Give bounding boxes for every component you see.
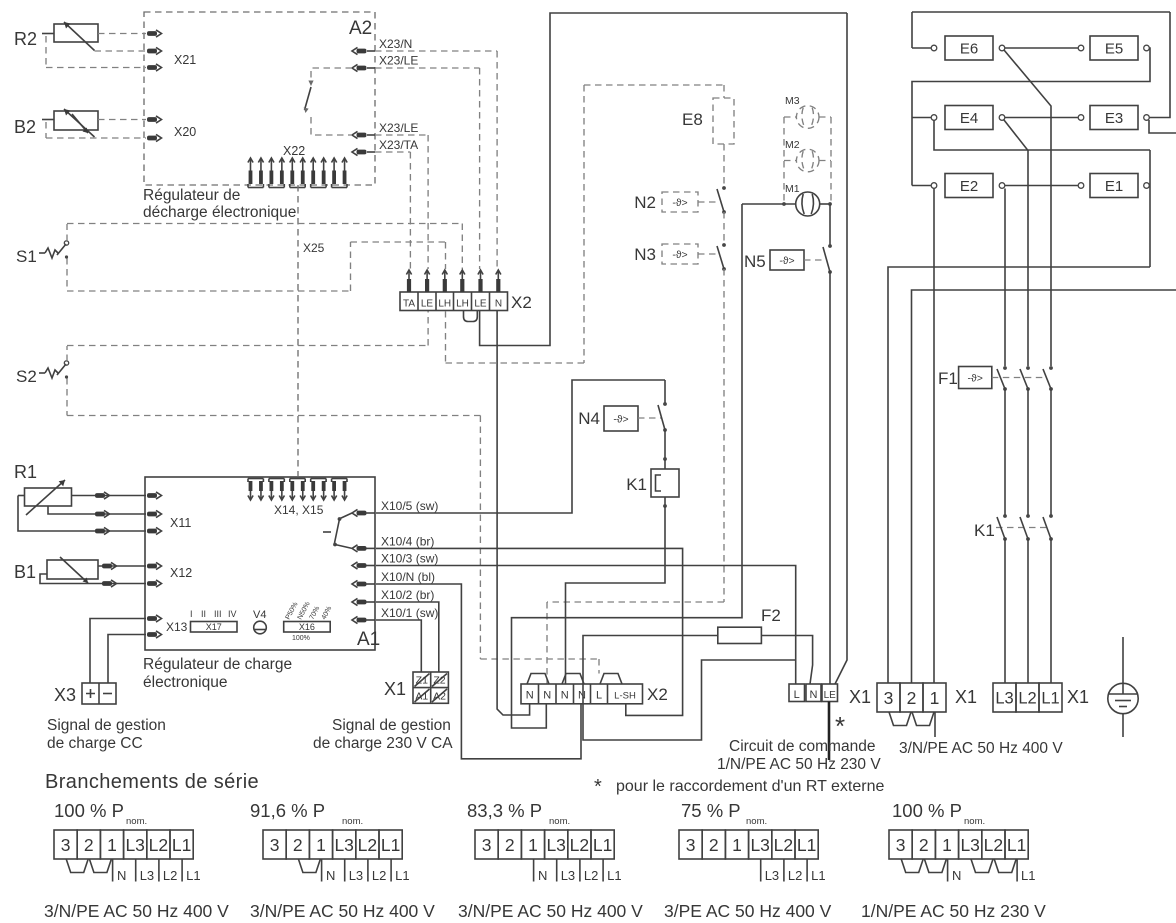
- wire E4 to E3: [1005, 117, 1078, 119]
- wire below X1 LE external RT: [828, 702, 831, 761]
- svg-text:100 % P: 100 % P: [892, 800, 962, 821]
- wire R2 pin1 to X21: [98, 33, 146, 35]
- svg-text:V4: V4: [253, 609, 266, 621]
- svg-text:N: N: [578, 690, 586, 702]
- svg-text:2: 2: [907, 688, 917, 708]
- svg-text:Z1: Z1: [416, 675, 428, 687]
- svg-text:*: *: [594, 776, 602, 798]
- svg-text:2: 2: [505, 835, 515, 855]
- wire B2 pin2 bracket to X20: [42, 119, 54, 121]
- svg-text:L2: L2: [984, 835, 1003, 855]
- svg-text:LH: LH: [438, 299, 451, 310]
- jumper loop under X2 upper LH-LE: [464, 311, 478, 322]
- contact N3: [722, 243, 726, 247]
- heater E3: [1078, 115, 1084, 121]
- relay coil K1: [664, 430, 666, 459]
- wire X2-LE to heater feed riser: [480, 13, 847, 346]
- svg-text:nom.: nom.: [126, 816, 147, 827]
- svg-text:L3: L3: [140, 868, 154, 883]
- svg-text:IV: IV: [228, 609, 237, 619]
- wire X23/LE to X2 terminal LE (dashed): [375, 67, 480, 69]
- terminal strip X2 upper TA LE LH LH LE N: [400, 292, 508, 311]
- svg-text:L1: L1: [607, 868, 621, 883]
- contact N5: [828, 244, 832, 248]
- svg-text:N: N: [810, 689, 818, 701]
- wire R1 pin1 to X11: [72, 495, 147, 497]
- svg-text:X13: X13: [166, 620, 188, 634]
- svg-text:2: 2: [709, 835, 719, 855]
- svg-text:Branchements de série: Branchements de série: [45, 771, 259, 793]
- svg-text:K1: K1: [626, 475, 647, 494]
- connector arrows X21: [147, 31, 157, 36]
- heater E5: [1078, 45, 1084, 51]
- svg-text:L1: L1: [797, 835, 816, 855]
- svg-text:L2: L2: [358, 835, 377, 855]
- svg-text:L1: L1: [1007, 835, 1026, 855]
- resistor E8 (dashed): [723, 85, 725, 98]
- svg-text:L2: L2: [1018, 689, 1036, 707]
- svg-text:R2: R2: [14, 29, 37, 49]
- arrows X10 into A1: [357, 511, 367, 516]
- svg-text:3: 3: [61, 835, 71, 855]
- contact K1 pole L1: [1049, 514, 1053, 518]
- svg-text:X22: X22: [283, 144, 305, 158]
- svg-text:R1: R1: [14, 462, 37, 482]
- svg-text:L2: L2: [570, 835, 589, 855]
- svg-text:100%: 100%: [292, 635, 310, 642]
- svg-text:nom.: nom.: [342, 816, 363, 827]
- svg-text:M2: M2: [785, 139, 800, 151]
- wire M1 right to N5 contact: [820, 203, 830, 205]
- jumper 2-1: [912, 712, 934, 726]
- regulator A1 box: [145, 477, 375, 650]
- svg-text:L3: L3: [750, 835, 769, 855]
- svg-text:3/N/PE AC 50 Hz 400 V: 3/N/PE AC 50 Hz 400 V: [44, 901, 229, 921]
- svg-text:3/PE AC 50 Hz 400 V: 3/PE AC 50 Hz 400 V: [664, 901, 832, 921]
- svg-text:III: III: [214, 609, 222, 619]
- svg-text:X23/TA: X23/TA: [379, 138, 418, 152]
- wire X10/1 to Z1: [376, 620, 421, 672]
- dashed riser right of M2/M3: [830, 117, 832, 203]
- wire X10/5 to N4 branch: [376, 380, 665, 513]
- plug lugs on X2 lower: [527, 674, 549, 685]
- svg-text:L3: L3: [765, 868, 779, 883]
- terminal strip X2 lower N N N N L L-SH: [521, 684, 643, 704]
- heater E6: [912, 47, 931, 49]
- svg-text:nom.: nom.: [549, 816, 570, 827]
- wire top feed to E6: [912, 11, 1170, 13]
- svg-text:E4: E4: [960, 110, 978, 127]
- svg-text:N: N: [952, 868, 961, 883]
- svg-text:*: *: [835, 711, 845, 741]
- wire S2 bottom to X2 lower terminal L (dashed): [67, 415, 480, 417]
- svg-text:L: L: [596, 690, 602, 702]
- wire F1 to K1 L2: [1027, 389, 1029, 516]
- svg-text:2: 2: [919, 835, 929, 855]
- svg-text:S1: S1: [16, 247, 37, 266]
- svg-text:S2: S2: [16, 367, 37, 386]
- svg-text:L2: L2: [149, 835, 168, 855]
- svg-text:3/N/PE AC 50 Hz 400 V: 3/N/PE AC 50 Hz 400 V: [458, 901, 643, 921]
- svg-text:3: 3: [884, 688, 894, 708]
- svg-text:pour le raccordement d'un RT e: pour le raccordement d'un RT externe: [616, 778, 884, 795]
- connector arrows X20: [147, 117, 157, 122]
- dashed loop down to lower X2 N2 terminal: [723, 269, 725, 602]
- wire top wrap to E3 right: [1150, 12, 1171, 118]
- svg-text:3/N/PE AC 50 Hz 400 V: 3/N/PE AC 50 Hz 400 V: [899, 740, 1063, 757]
- svg-text:N: N: [538, 868, 547, 883]
- svg-text:3/N/PE AC 50 Hz 400 V: 3/N/PE AC 50 Hz 400 V: [250, 901, 435, 921]
- wire X23/TA to X2 terminal TA (dashed): [375, 151, 410, 153]
- svg-text:Z2: Z2: [433, 675, 445, 687]
- svg-text:X21: X21: [174, 53, 196, 67]
- wire K1 to terminal L2: [1027, 539, 1029, 683]
- svg-text:91,6 % P: 91,6 % P: [250, 800, 325, 821]
- svg-text:N4: N4: [578, 409, 600, 428]
- svg-text:L3: L3: [125, 835, 144, 855]
- svg-text:1: 1: [107, 835, 117, 855]
- power selector X16: [284, 622, 331, 633]
- relay contact inside A1: [340, 513, 352, 519]
- regulator A2 dashed enclosure: [144, 12, 375, 185]
- svg-text:L2: L2: [788, 868, 802, 883]
- wire S1 bottom to X2 terminal LH3 (dashed): [67, 290, 351, 292]
- svg-text:de charge CC: de charge CC: [47, 735, 143, 752]
- svg-text:E5: E5: [1105, 41, 1123, 58]
- svg-text:1/N/PE AC 50 Hz 230 V: 1/N/PE AC 50 Hz 230 V: [717, 756, 881, 773]
- sensor R1 (room setpoint potentiometer): [25, 488, 72, 506]
- svg-text:X25: X25: [303, 241, 325, 255]
- svg-text:3: 3: [896, 835, 906, 855]
- dashed discharge control loop left edge: [583, 85, 585, 363]
- svg-text:X10/5 (sw): X10/5 (sw): [381, 499, 438, 513]
- wire E6 to E5: [1005, 47, 1078, 49]
- svg-text:L-SH: L-SH: [614, 691, 636, 702]
- svg-text:décharge électronique: décharge électronique: [143, 204, 296, 221]
- svg-text:75 % P: 75 % P: [681, 800, 741, 821]
- wire R1 pin2 to X11: [18, 495, 25, 497]
- terminal X1 L3 L2 L1: [993, 683, 1016, 712]
- svg-text:L1: L1: [381, 835, 400, 855]
- svg-text:N5: N5: [744, 252, 766, 271]
- wire X10/2 to Z2: [376, 602, 439, 672]
- svg-text:L1: L1: [1041, 689, 1059, 707]
- svg-text:Régulateur de charge: Régulateur de charge: [143, 656, 292, 673]
- svg-text:1: 1: [942, 835, 952, 855]
- wire R2 wiper to X21: [95, 50, 147, 52]
- svg-text:X23/N: X23/N: [379, 37, 412, 51]
- svg-text:-ϑ>: -ϑ>: [613, 413, 628, 425]
- svg-text:L2: L2: [163, 868, 177, 883]
- wire X2-N down to lower X2 N1: [497, 311, 529, 715]
- svg-text:N3: N3: [634, 245, 656, 264]
- sensor B1 (room temperature NTC): [47, 560, 98, 579]
- svg-text:A2: A2: [433, 691, 446, 703]
- svg-text:X10/N (bl): X10/N (bl): [381, 570, 435, 584]
- sensor B2 (discharge temperature NTC): [54, 111, 98, 130]
- thermostat N3 (dashed): [662, 244, 698, 264]
- wire R1 wiper to X11: [48, 506, 146, 514]
- svg-text:N: N: [526, 690, 534, 702]
- svg-text:L2: L2: [584, 868, 598, 883]
- svg-text:-ϑ>: -ϑ>: [672, 197, 687, 209]
- svg-text:1: 1: [930, 688, 940, 708]
- arrows into X11: [95, 493, 105, 498]
- svg-text:X10/2 (br): X10/2 (br): [381, 588, 434, 602]
- svg-text:L3: L3: [349, 868, 363, 883]
- wire S2 top to X2 terminal LE2 bottom (dashed): [67, 345, 428, 347]
- sensor R2 (remote setpoint potentiometer): [54, 24, 98, 42]
- wire F2 right to X1 N: [761, 636, 812, 685]
- wire E5 right loop to E2 branch: [912, 48, 1150, 186]
- svg-text:B2: B2: [14, 117, 36, 137]
- svg-text:X3: X3: [54, 685, 76, 705]
- svg-text:L1: L1: [1021, 868, 1035, 883]
- svg-text:F2: F2: [761, 606, 781, 625]
- svg-text:L1: L1: [593, 835, 612, 855]
- terminal X1 L N LE: [789, 684, 805, 702]
- svg-text:LE: LE: [474, 299, 487, 310]
- svg-text:Circuit de commande: Circuit de commande: [729, 738, 875, 755]
- jumper 3-2: [889, 712, 911, 726]
- wire M1 left down to lower X2 N2: [512, 204, 743, 728]
- svg-text:TA: TA: [403, 299, 415, 310]
- svg-text:X10/4 (br): X10/4 (br): [381, 534, 434, 548]
- svg-text:X23/LE: X23/LE: [379, 121, 418, 135]
- svg-text:LE: LE: [421, 299, 434, 310]
- wire K1 to terminal L1: [1050, 539, 1052, 683]
- svg-text:L3: L3: [334, 835, 353, 855]
- svg-text:X23/LE: X23/LE: [379, 54, 418, 68]
- svg-text:nom.: nom.: [746, 816, 767, 827]
- svg-text:L1: L1: [186, 868, 200, 883]
- svg-text:X12: X12: [170, 566, 192, 580]
- svg-text:X10/3 (sw): X10/3 (sw): [381, 552, 438, 566]
- contact K1 pole L2: [1026, 514, 1030, 518]
- svg-text:N: N: [495, 299, 502, 310]
- svg-text:II: II: [201, 609, 206, 619]
- contact F1 pole L3: [1003, 366, 1007, 370]
- svg-text:N: N: [543, 690, 551, 702]
- svg-text:-ϑ>: -ϑ>: [672, 249, 687, 261]
- wire B2 pin1 to X20: [98, 119, 146, 121]
- svg-text:L3: L3: [995, 689, 1013, 707]
- node E6 right: [999, 45, 1005, 51]
- connector X14 X15 pin row: [250, 481, 252, 499]
- connector X25 link A2 to A1 (dashed): [297, 185, 299, 476]
- wire B1 pin2 to X12: [40, 574, 146, 584]
- heater E1: [1078, 183, 1084, 189]
- svg-text:X1: X1: [955, 687, 977, 707]
- earth ground symbol: [1122, 637, 1124, 684]
- wire X2-LH3 bottom dashed to discharge loop: [445, 311, 447, 363]
- svg-text:N: N: [561, 690, 569, 702]
- svg-text:1/N/PE AC 50 Hz 230 V: 1/N/PE AC 50 Hz 230 V: [861, 901, 1046, 921]
- wire F2 left to X1 L via loop: [583, 636, 796, 741]
- svg-text:nom.: nom.: [964, 816, 985, 827]
- svg-text:A1: A1: [415, 691, 428, 703]
- wire B1 pin1 to X12: [98, 565, 146, 567]
- arrows into X13: [147, 616, 157, 621]
- svg-text:E3: E3: [1105, 110, 1123, 127]
- wire heater feed right edge down to X1 LE: [835, 13, 847, 684]
- svg-text:X1: X1: [1067, 687, 1089, 707]
- wire X23/LE lower to X2 terminal LE2 (dashed): [375, 134, 428, 136]
- contact N4: [664, 380, 666, 404]
- contact F1 pole L1: [1049, 366, 1053, 370]
- connector X23 arrows on A2 right edge: [357, 49, 367, 54]
- svg-text:E2: E2: [960, 178, 978, 195]
- svg-text:LH: LH: [456, 299, 469, 310]
- svg-text:X2: X2: [647, 685, 668, 704]
- svg-text:F1: F1: [938, 369, 958, 388]
- svg-text:1: 1: [528, 835, 538, 855]
- svg-text:électronique: électronique: [143, 674, 227, 691]
- svg-text:L1: L1: [811, 868, 825, 883]
- svg-text:X1: X1: [384, 679, 406, 699]
- svg-text:L2: L2: [372, 868, 386, 883]
- contact F1 pole L2: [1026, 366, 1030, 370]
- wire X10/4 to lower X2 L-SH: [376, 548, 683, 715]
- wire E2 to E1: [1005, 185, 1078, 187]
- contact K1 pole L3: [1003, 514, 1007, 518]
- svg-text:Signal de gestion: Signal de gestion: [47, 717, 166, 734]
- wire E1 right riser: [1149, 185, 1152, 187]
- dashed discharge control loop top edge: [584, 84, 724, 86]
- svg-text:L3: L3: [561, 868, 575, 883]
- wire R2 pin2 bracket to X21: [42, 33, 54, 35]
- svg-text:X20: X20: [174, 125, 196, 139]
- relay contact inside A2: [311, 68, 352, 84]
- svg-text:X1: X1: [849, 687, 871, 707]
- svg-text:A1: A1: [357, 629, 380, 650]
- svg-text:83,3 % P: 83,3 % P: [467, 800, 542, 821]
- wire X3 minus to X13: [108, 635, 146, 684]
- svg-text:-ϑ>: -ϑ>: [779, 255, 794, 267]
- svg-text:L2: L2: [774, 835, 793, 855]
- wire F1 to K1 L1: [1050, 389, 1052, 516]
- wire K1 to terminal L3: [1004, 539, 1006, 683]
- svg-text:X10/1 (sw): X10/1 (sw): [381, 606, 438, 620]
- wire E2 right down to L3 phase: [1004, 189, 1006, 367]
- wire M1 left: [742, 203, 796, 205]
- svg-text:X14, X15: X14, X15: [274, 503, 324, 517]
- wire E2 left down to terminal 1: [933, 189, 935, 684]
- wire X23/N to X2 terminal N (dashed): [375, 50, 497, 52]
- svg-text:E1: E1: [1105, 178, 1123, 195]
- svg-text:L3: L3: [546, 835, 565, 855]
- svg-text:3: 3: [270, 835, 280, 855]
- svg-text:LE: LE: [824, 690, 837, 701]
- svg-text:100 % P: 100 % P: [54, 800, 124, 821]
- stub below terminal 1: [934, 712, 936, 737]
- svg-text:K1: K1: [974, 521, 995, 540]
- wire from edge to terminal 2: [912, 290, 1176, 683]
- wire F1 to K1 L3: [1004, 389, 1006, 516]
- svg-text:M3: M3: [785, 95, 800, 107]
- svg-text:E6: E6: [960, 41, 978, 58]
- svg-text:L: L: [794, 689, 800, 701]
- svg-text:Signal de gestion: Signal de gestion: [332, 717, 451, 734]
- dashed riser left of M2/M3: [783, 117, 785, 203]
- svg-text:B1: B1: [14, 562, 36, 582]
- svg-text:X17: X17: [206, 622, 222, 632]
- wire loop to terminal 3: [888, 267, 1150, 683]
- thermostat N2 (dashed): [662, 192, 698, 212]
- svg-text:1: 1: [732, 835, 742, 855]
- heater E2: [912, 185, 931, 187]
- wire E3 right drop to edge: [1149, 120, 1176, 133]
- wire N5 contact down to X1 LE: [829, 272, 831, 684]
- svg-text:N: N: [326, 868, 335, 883]
- svg-text:X11: X11: [170, 516, 191, 530]
- wire K1 coil to lower X2 N3: [664, 497, 666, 506]
- svg-text:L3: L3: [960, 835, 979, 855]
- pins above X2 upper: [408, 271, 410, 292]
- svg-text:M1: M1: [785, 183, 800, 195]
- contact N2: [722, 186, 726, 190]
- svg-text:3: 3: [482, 835, 492, 855]
- svg-text:2: 2: [293, 835, 303, 855]
- wire X10/3 to X1 L: [376, 566, 796, 685]
- wire diagonal E6 to L1 phase: [1004, 50, 1051, 366]
- svg-text:E8: E8: [682, 110, 703, 129]
- svg-text:I: I: [190, 609, 193, 619]
- svg-text:X2: X2: [511, 293, 532, 312]
- svg-text:1: 1: [316, 835, 326, 855]
- svg-text:L1: L1: [172, 835, 191, 855]
- connector X22 pin row on A2: [250, 159, 252, 184]
- wire S1 top to X2 terminal LH4 (dashed): [67, 223, 462, 225]
- heater E4: [912, 117, 931, 119]
- svg-text:Régulateur de: Régulateur de: [143, 187, 240, 204]
- svg-text:N2: N2: [634, 193, 656, 212]
- svg-text:X16: X16: [299, 622, 315, 632]
- svg-text:N: N: [117, 868, 126, 883]
- wire diagonal E4 to L2 phase: [1004, 120, 1028, 366]
- wire X3 plus to X13: [90, 619, 146, 684]
- svg-text:3: 3: [686, 835, 696, 855]
- arrows into X12: [102, 564, 112, 569]
- svg-text:-ϑ>: -ϑ>: [968, 372, 983, 384]
- svg-text:A2: A2: [349, 18, 372, 39]
- wire X10/N to lower X2 N4: [376, 584, 581, 759]
- svg-text:de charge 230 V CA: de charge 230 V CA: [313, 735, 453, 752]
- svg-text:L1: L1: [395, 868, 409, 883]
- svg-text:2: 2: [84, 835, 94, 855]
- wire E4 left drop to E1 loop: [934, 121, 1150, 151]
